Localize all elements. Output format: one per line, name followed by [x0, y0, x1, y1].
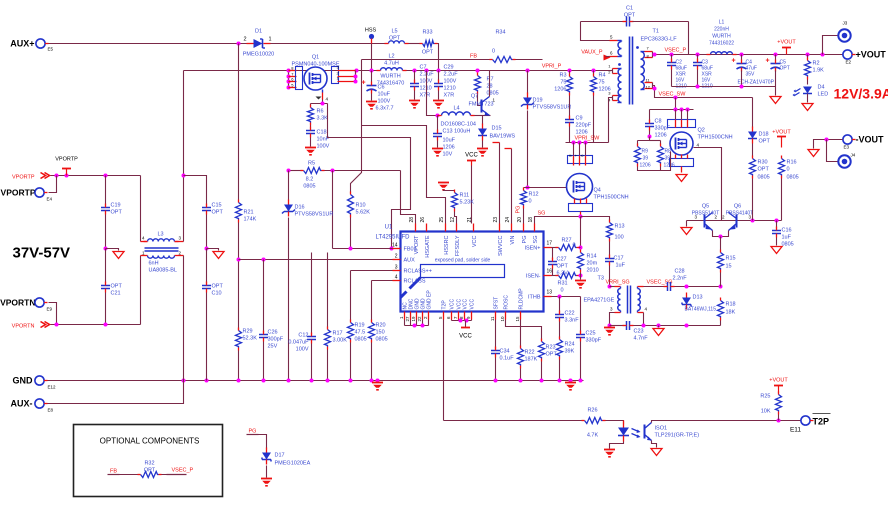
svg-text:744316022: 744316022 [709, 41, 734, 47]
wire VPRI_P bus [184, 70, 611, 72]
svg-text:VCC: VCC [465, 153, 478, 159]
svg-text:3.3K: 3.3K [317, 116, 329, 122]
optocoupler ISO1 TLP291 LED [618, 428, 629, 436]
svg-text:C22: C22 [565, 311, 575, 317]
svg-text:1210: 1210 [444, 86, 456, 92]
svg-text:R3: R3 [559, 73, 566, 79]
ground below C6 [366, 101, 377, 103]
svg-text:39: 39 [643, 156, 649, 162]
svg-text:39K: 39K [565, 349, 575, 355]
svg-text:C18: C18 [317, 130, 327, 136]
svg-text:0805: 0805 [376, 337, 388, 343]
transistor Q4 TPH1500CNH drain pins [573, 143, 575, 156]
U1 exposed pad [421, 265, 505, 278]
svg-text:1206: 1206 [443, 145, 455, 151]
ground open at Q5 collector [686, 221, 688, 227]
svg-text:OPT: OPT [111, 284, 123, 290]
wire drop to Q2 drain bus [675, 98, 677, 110]
wire VPORTN rail to L3 pin 1 [140, 256, 142, 325]
svg-text:39: 39 [665, 156, 671, 162]
ground below C29 [433, 100, 444, 102]
wire bus drop to L3 pin 3 [183, 71, 185, 242]
svg-text:C29: C29 [444, 65, 454, 71]
wire Q1 gate node [311, 103, 328, 105]
svg-text:3.00K: 3.00K [333, 338, 348, 344]
svg-text:Q6: Q6 [734, 204, 741, 210]
svg-text:R31: R31 [558, 281, 568, 287]
svg-text:OPT: OPT [212, 284, 224, 290]
svg-text:16: 16 [547, 269, 553, 275]
resistor R27 0 [552, 247, 557, 249]
svg-text:VCC: VCC [450, 299, 456, 310]
svg-text:R23: R23 [546, 345, 556, 351]
svg-text:11: 11 [490, 316, 495, 321]
svg-text:R12: R12 [529, 192, 539, 198]
svg-text:GND EP: GND EP [427, 290, 433, 310]
svg-text:OPT: OPT [780, 66, 790, 72]
svg-text:D16: D16 [295, 205, 305, 211]
capacitor C27 OPT 6.3V [552, 248, 553, 260]
wire R10 to FB01 line [350, 218, 352, 249]
wire FB01 row to U1 pin 14 [333, 248, 393, 250]
resistor R26 4.7K [585, 418, 603, 424]
svg-text:+VOUT: +VOUT [856, 50, 887, 60]
wire Q2 drain bus [650, 109, 694, 111]
svg-text:0: 0 [529, 199, 532, 205]
wire input column x238 [238, 44, 240, 200]
svg-text:LT4295IUFD: LT4295IUFD [376, 235, 411, 241]
svg-text:-VOUT: -VOUT [856, 135, 885, 145]
wire after R34 [516, 59, 543, 61]
svg-text:10uF: 10uF [378, 92, 391, 98]
svg-text:VCC: VCC [459, 334, 472, 340]
transistor Q4 TPH1500CNH [567, 174, 593, 200]
transistor Q1 PSMN040-100MSE drain pin bar [288, 71, 290, 88]
wire T2P pin down [443, 320, 445, 421]
ground open below D4 [807, 94, 809, 103]
resistor R23 OPT from ROSC [506, 320, 542, 340]
U1 VCC pins 6-9 [451, 312, 453, 320]
svg-text:OPT: OPT [111, 210, 123, 216]
op-amp U1 LT4295IUFD body [401, 232, 544, 312]
svg-text:R30: R30 [758, 160, 768, 166]
transistor Q2 TPH1500CNH [670, 132, 693, 155]
resistor R6 3.3K [310, 104, 312, 106]
TVS diode D19 PTVS58VS1UR [527, 71, 529, 94]
svg-text:EPA4271GE: EPA4271GE [584, 298, 615, 304]
svg-text:+: + [731, 58, 735, 65]
svg-text:0805: 0805 [355, 337, 367, 343]
capacitor C10 OPT [206, 249, 208, 284]
jack J3 [823, 36, 839, 55]
wire AUX row to U1 pin 2 [239, 259, 393, 261]
svg-text:ISEN-: ISEN- [526, 274, 541, 280]
transistor Q6 PBSS4140T [736, 215, 738, 228]
svg-text:E5: E5 [48, 47, 54, 52]
resistor R24 39K [559, 322, 561, 338]
svg-text:T3: T3 [598, 276, 604, 282]
svg-text:0805: 0805 [303, 184, 315, 190]
wire Q4 gate line [524, 187, 569, 189]
wire T3 pin3 down [610, 313, 615, 326]
wire bus drop to L4 node [427, 71, 438, 116]
svg-text:+: + [765, 58, 769, 65]
inductor L4 DO1608C-104 100uH [442, 112, 471, 116]
wire VCC mini bus [452, 320, 472, 322]
diode D15 BAV19WS [482, 116, 484, 125]
svg-text:UA8085-BL: UA8085-BL [149, 268, 177, 274]
svg-text:R13: R13 [615, 224, 625, 230]
svg-text:23: 23 [493, 217, 499, 223]
wire emitter node to R15 [720, 237, 722, 250]
T1 core [629, 37, 631, 105]
svg-text:15: 15 [726, 264, 732, 270]
resistor R31 0 [552, 275, 557, 277]
svg-text:C12: C12 [298, 333, 308, 339]
diode D17 PMEG1020EA [262, 453, 271, 460]
capacitor C16 1uF 0805 [776, 221, 778, 229]
wire SG row to Q4 source [535, 217, 581, 224]
resistor R19 47.5 0805 [350, 271, 352, 321]
svg-text:R21: R21 [244, 210, 254, 216]
U1 left pin stubs [393, 248, 401, 250]
svg-text:C26: C26 [268, 330, 278, 336]
svg-text:U1: U1 [385, 225, 393, 231]
wire C1 right leg [688, 22, 690, 55]
svg-text:VPORTN: VPORTN [12, 324, 35, 330]
svg-text:26: 26 [420, 217, 426, 223]
svg-text:R4: R4 [599, 73, 606, 79]
resistor R20 150 0805 [371, 281, 373, 321]
svg-text:L1: L1 [719, 20, 725, 26]
svg-text:52.3K: 52.3K [243, 336, 258, 342]
wire VPORTP terminal to rail [49, 176, 57, 193]
svg-text:0: 0 [573, 243, 576, 249]
capacitor C12 0.047uF 100V [311, 253, 313, 335]
transistor Q4 source pins [569, 204, 593, 212]
svg-text:4.7nF: 4.7nF [634, 336, 649, 342]
svg-text:OPT: OPT [759, 139, 771, 145]
optocoupler ISO1 arrows [632, 429, 639, 437]
svg-text:174K: 174K [244, 217, 257, 223]
svg-text:C10: C10 [212, 291, 222, 297]
svg-text:10: 10 [500, 316, 505, 322]
svg-text:R25: R25 [760, 394, 770, 400]
wire divider drop to FB01 row [332, 171, 334, 249]
U1 ROSC pin 10 [505, 312, 507, 320]
wire RCLASS++ row [351, 270, 393, 272]
resistor R2 1.9K [807, 55, 809, 59]
ground below C7 [409, 100, 420, 102]
svg-text:ISO1: ISO1 [655, 426, 668, 432]
svg-text:24: 24 [505, 217, 511, 223]
svg-text:AUX: AUX [404, 258, 416, 264]
ground below D17 [266, 466, 268, 478]
svg-text:330pF: 330pF [586, 338, 602, 344]
T1 primary winding pins 1/2 [611, 70, 613, 72]
svg-text:D4: D4 [818, 85, 825, 91]
svg-text:12V/3.9A: 12V/3.9A [834, 86, 888, 102]
svg-text:D13: D13 [693, 295, 703, 301]
wire VPORTP rail [51, 175, 141, 177]
wire PG to D17 [259, 435, 267, 449]
svg-text:R24: R24 [565, 342, 575, 348]
svg-text:DO1608C-104: DO1608C-104 [441, 122, 476, 128]
wire RCLASS row [372, 280, 393, 282]
svg-text:R2: R2 [813, 61, 820, 67]
transistor Q1 gate pin 4 [322, 90, 324, 93]
svg-text:R6: R6 [317, 109, 324, 115]
wire C28 to D13 node [675, 286, 721, 288]
U1 SFST pin 11 [495, 312, 497, 320]
svg-text:15: 15 [515, 316, 520, 322]
svg-text:5.62K: 5.62K [356, 210, 371, 216]
T1 secondary pins 11/12 [645, 82, 653, 84]
wire VPORT line to U1 pin 28 [401, 171, 416, 224]
svg-text:C25: C25 [586, 331, 596, 337]
svg-text:SG: SG [533, 236, 539, 244]
diode D1 PMEG10020 [247, 43, 254, 45]
wire R21 to AUX row [238, 223, 240, 331]
svg-text:150: 150 [376, 330, 385, 336]
svg-text:75: 75 [560, 80, 566, 86]
svg-text:X7R: X7R [444, 93, 455, 99]
svg-text:R18: R18 [726, 302, 736, 308]
svg-text:BAT46WJ,115: BAT46WJ,115 [685, 307, 717, 313]
svg-text:OPT: OPT [758, 167, 770, 173]
svg-text:R9: R9 [642, 149, 649, 155]
resistor R14 20m 2010 [578, 253, 584, 270]
U1 T2P pin 5 [443, 312, 445, 320]
svg-text:SG: SG [538, 211, 546, 217]
svg-text:100V: 100V [444, 79, 457, 85]
svg-text:C21: C21 [111, 291, 121, 297]
svg-text:BAV19WS: BAV19WS [490, 134, 516, 140]
svg-text:27: 27 [405, 316, 410, 322]
svg-text:C9: C9 [576, 116, 583, 122]
svg-text:R34: R34 [495, 30, 505, 36]
svg-text:GND: GND [13, 376, 34, 386]
svg-text:J4: J4 [851, 153, 856, 158]
wire Q5/Q6 emitter bus [713, 231, 729, 237]
wire VPORTN terminal drop [49, 303, 57, 325]
wire GND bus [48, 380, 584, 382]
svg-text:+VOUT: +VOUT [769, 378, 788, 384]
resistor R30 OPT 0805 [752, 144, 754, 157]
wire bottom row with C23 [610, 325, 625, 327]
ground near R11 [438, 182, 449, 184]
svg-text:VSEC_SW: VSEC_SW [659, 92, 687, 98]
svg-text:6.3x7.7: 6.3x7.7 [376, 106, 394, 112]
svg-text:VCC: VCC [463, 299, 469, 310]
svg-text:0805: 0805 [487, 91, 499, 97]
U1 right pin stubs [544, 247, 552, 249]
svg-text:C27: C27 [557, 257, 567, 263]
resistor R32 OPT [120, 474, 139, 476]
svg-text:FMMT723: FMMT723 [469, 102, 494, 108]
svg-text:C19: C19 [111, 203, 121, 209]
capacitor C17 1uF [609, 242, 611, 257]
svg-text:SFST: SFST [494, 297, 500, 310]
wire L4 to Q7 [475, 115, 491, 117]
svg-text:1uF: 1uF [616, 263, 626, 269]
inductor L5 OPT [389, 41, 405, 44]
svg-text:D19: D19 [533, 98, 543, 104]
svg-text:L5: L5 [391, 29, 397, 35]
svg-text:VSEC_P: VSEC_P [665, 48, 687, 54]
capacitor C18 10nF 100V [310, 126, 312, 128]
node D16 junction [287, 169, 291, 173]
svg-text:TPH1500CNH: TPH1500CNH [594, 195, 629, 201]
wire SWVCC pin 23 up [499, 143, 501, 224]
wire opto collector to T2P pad [652, 421, 801, 423]
svg-text:R22: R22 [525, 350, 535, 356]
transistor Q5 PBSS5140T [704, 215, 706, 228]
svg-text:C7: C7 [420, 65, 427, 71]
svg-text:T2P: T2P [813, 417, 830, 427]
svg-text:PTVS58VS1UR: PTVS58VS1UR [533, 105, 572, 111]
svg-text:0805: 0805 [782, 242, 794, 248]
svg-text:20m: 20m [587, 261, 598, 267]
svg-text:12: 12 [646, 85, 651, 90]
svg-text:C15: C15 [212, 203, 222, 209]
wire ITHB row [552, 296, 581, 298]
svg-text:ECH-ZA1V470P: ECH-ZA1V470P [738, 80, 775, 86]
svg-text:E3: E3 [844, 145, 850, 150]
svg-text:OPT: OPT [624, 13, 636, 19]
svg-text:AUX+: AUX+ [10, 39, 34, 49]
wire C1 left leg to T1 pin5 [581, 22, 610, 41]
svg-text:HSSRC: HSSRC [444, 235, 450, 254]
capacitor C34 0.1uF [495, 320, 497, 349]
svg-text:VPORTN: VPORTN [0, 298, 35, 308]
svg-text:E9: E9 [47, 307, 53, 312]
capacitor C4 47uF 35V [741, 55, 743, 61]
svg-text:VPRI_P: VPRI_P [542, 64, 562, 70]
ground open below C16 [771, 247, 782, 254]
svg-text:12: 12 [450, 217, 456, 223]
TVS diode D16 PTVS58VS1UR [288, 171, 290, 201]
ground below C13 [432, 148, 443, 150]
svg-text:ITHB: ITHB [528, 295, 541, 301]
svg-text:TPH1500CNH: TPH1500CNH [698, 135, 733, 141]
svg-text:22: 22 [417, 316, 422, 322]
capacitor C23 4.7nF [626, 321, 628, 330]
svg-text:D1: D1 [255, 29, 262, 35]
inductor L2 4.7uH WURTH 744316470 [381, 69, 404, 73]
svg-text:X7R: X7R [420, 93, 431, 99]
U1 RLDCMP pin 15 [520, 312, 522, 320]
wire Q5/Q6 collector row [687, 220, 782, 222]
wire Q7 emitter to bus [489, 71, 491, 97]
svg-text:187K: 187K [525, 357, 538, 363]
wire Q1 source sense to U1 FB01 area [328, 104, 411, 249]
resistor R17 3.00K [327, 253, 329, 328]
svg-text:5.23K: 5.23K [460, 200, 475, 206]
svg-text:R26: R26 [587, 408, 597, 414]
svg-text:Q7: Q7 [471, 94, 478, 100]
svg-text:R33: R33 [422, 30, 432, 36]
svg-text:47.5: 47.5 [355, 330, 366, 336]
svg-text:E11: E11 [790, 427, 801, 434]
resistor R4 75 1206 [593, 71, 595, 75]
transistor Q1 source pin box [332, 67, 339, 84]
svg-text:0: 0 [561, 288, 564, 294]
wire T1 pin3/4 to VPRI_SW [609, 98, 613, 143]
svg-text:R5: R5 [308, 161, 315, 167]
svg-text:D15: D15 [492, 126, 502, 132]
wire VPORTP rail to L3 pin 4 [140, 176, 142, 242]
svg-text:25V: 25V [268, 344, 278, 350]
svg-text:VPORTP: VPORTP [55, 157, 78, 163]
wire R7 to Q7 base [478, 95, 482, 106]
capacitor C29 2.2uF 100V X7R [438, 71, 440, 82]
svg-text:R20: R20 [376, 323, 386, 329]
svg-text:WURTH: WURTH [712, 34, 731, 40]
svg-text:2.2uF: 2.2uF [444, 72, 459, 78]
svg-text:R10: R10 [356, 203, 366, 209]
svg-text:ROSC: ROSC [504, 295, 510, 310]
capacitor C19 OPT [105, 176, 107, 206]
capacitor C7 2.2uF 100V X7R [414, 71, 416, 82]
node bus junctions [355, 69, 359, 73]
resistor R7 28 0805 [475, 76, 481, 92]
wire VIN pin 24 up [511, 149, 513, 224]
wire R12 to U1 pin 20 PG [523, 209, 525, 224]
svg-text:C23: C23 [634, 329, 644, 335]
svg-text:220nH: 220nH [714, 27, 729, 33]
svg-text:RLDCMP: RLDCMP [519, 288, 525, 310]
T1 primary pins 3/4 [612, 96, 614, 101]
svg-text:OPTIONAL COMPONENTS: OPTIONAL COMPONENTS [100, 437, 200, 446]
svg-text:FB: FB [470, 54, 477, 60]
ground mid C19/C21 [106, 249, 119, 251]
wire R8/R9 bottoms to Q2 gate [638, 152, 671, 171]
svg-text:HSGATE: HSGATE [425, 235, 431, 258]
svg-text:+VOUT: +VOUT [777, 40, 796, 46]
wire pin 11/12 to VSEC_SW [653, 54, 655, 56]
svg-text:37V-57V: 37V-57V [13, 245, 71, 262]
svg-text:0.1uF: 0.1uF [500, 356, 515, 362]
wire ground to R11 [444, 190, 455, 191]
svg-text:1.9K: 1.9K [813, 68, 825, 74]
svg-text:18: 18 [528, 217, 534, 223]
svg-text:OPT: OPT [144, 468, 156, 474]
svg-text:VIN: VIN [510, 235, 516, 244]
svg-text:LED: LED [818, 92, 829, 98]
svg-text:100: 100 [615, 235, 624, 241]
resistor R33 OPT [423, 41, 435, 47]
capacitor C2 68uF XSR 16V [671, 55, 673, 61]
svg-text:FB01: FB01 [404, 247, 417, 253]
T1 aux winding pins 5/6 [610, 40, 618, 42]
svg-text:WURTH: WURTH [380, 74, 400, 80]
diode D13 BAT46WJ,115 [682, 298, 691, 305]
svg-text:VPORTP: VPORTP [12, 175, 35, 181]
wire Q2 pin4 to Q5/Q6 bases [694, 148, 722, 221]
terminal T2P E11 [801, 416, 810, 425]
svg-text:C28: C28 [675, 269, 685, 275]
svg-text:T1: T1 [653, 29, 659, 35]
transistor Q1 PSMN040-100MSE [304, 67, 327, 90]
resistor R13 100 [581, 217, 610, 221]
terminal -VOUT E3 [843, 135, 852, 144]
svg-text:FFSDLY: FFSDLY [455, 235, 461, 256]
wire R5 to corner [325, 170, 401, 172]
svg-text:35V: 35V [746, 72, 756, 78]
svg-text:4: 4 [395, 275, 398, 281]
svg-text:R17: R17 [333, 331, 343, 337]
